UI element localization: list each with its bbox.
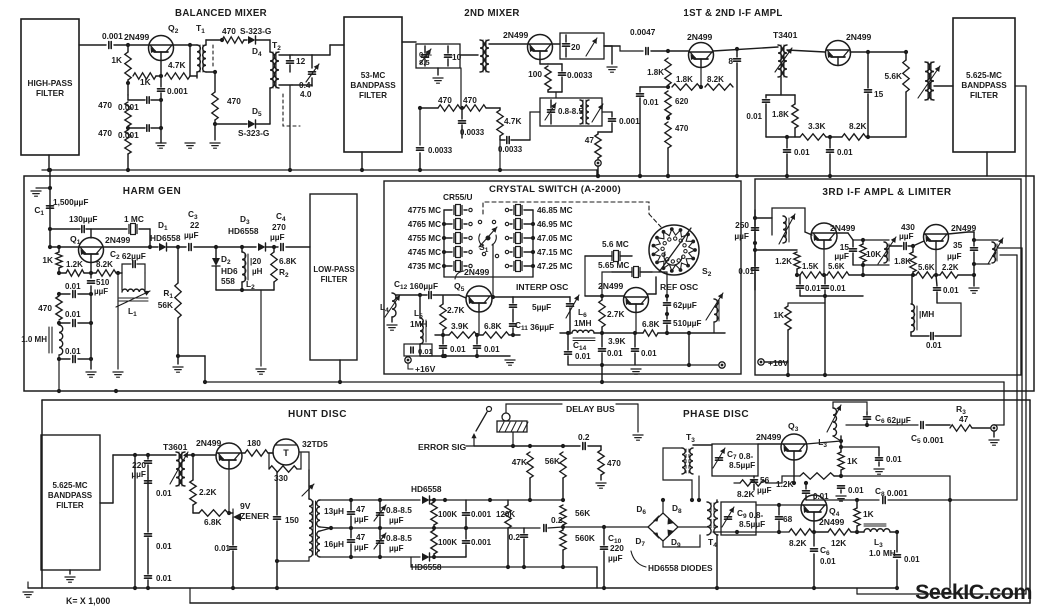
- svg-text:T: T: [283, 448, 289, 458]
- svg-text:1.2K: 1.2K: [66, 260, 83, 269]
- svg-text:1ST & 2ND I-F AMPL: 1ST & 2ND I-F AMPL: [683, 8, 782, 19]
- svg-text:180: 180: [247, 438, 261, 448]
- svg-text:µµF: µµF: [270, 232, 285, 242]
- svg-text:µµF: µµF: [389, 515, 404, 525]
- svg-text:10K: 10K: [866, 249, 881, 259]
- svg-text:1.8K: 1.8K: [894, 257, 911, 266]
- svg-text:ERROR SIG: ERROR SIG: [418, 442, 467, 452]
- svg-text:INTERP OSC: INTERP OSC: [516, 282, 568, 292]
- svg-text:8.2K: 8.2K: [737, 489, 755, 499]
- svg-text:0.8-8.5: 0.8-8.5: [386, 533, 412, 543]
- svg-text:1.8K: 1.8K: [647, 68, 664, 77]
- svg-text:6.8K: 6.8K: [279, 256, 297, 266]
- svg-text:2N499: 2N499: [196, 438, 222, 448]
- svg-text:BANDPASS: BANDPASS: [961, 81, 1007, 90]
- svg-text:µµF: µµF: [389, 543, 404, 553]
- svg-text:470: 470: [463, 95, 477, 105]
- svg-text:5.6 MC: 5.6 MC: [602, 239, 629, 249]
- svg-text:FILTER: FILTER: [970, 91, 998, 100]
- svg-text:47.25 MC: 47.25 MC: [537, 262, 573, 271]
- svg-text:100K: 100K: [438, 538, 457, 547]
- svg-text:4775 MC: 4775 MC: [408, 206, 441, 215]
- svg-text:0.01: 0.01: [820, 557, 836, 566]
- svg-text:HD6558: HD6558: [411, 484, 442, 494]
- svg-text:T3601: T3601: [163, 442, 188, 452]
- svg-text:56K: 56K: [575, 508, 590, 518]
- svg-text:2N499: 2N499: [464, 267, 490, 277]
- svg-text:0.01: 0.01: [214, 544, 230, 553]
- svg-text:8.5: 8.5: [419, 58, 430, 67]
- svg-text:ZENER: ZENER: [240, 511, 270, 521]
- svg-text:0.01: 0.01: [794, 148, 810, 157]
- svg-text:0.01: 0.01: [926, 341, 942, 350]
- svg-text:250: 250: [735, 220, 749, 230]
- svg-text:0.01: 0.01: [156, 542, 172, 551]
- svg-text:HIGH-PASS: HIGH-PASS: [28, 79, 73, 88]
- svg-text:µµF: µµF: [899, 231, 914, 241]
- svg-text:12K: 12K: [831, 538, 846, 548]
- svg-text:S-323-G: S-323-G: [240, 26, 271, 36]
- svg-text:0.01: 0.01: [848, 486, 864, 495]
- svg-text:20: 20: [571, 42, 581, 52]
- svg-text:HD6558 DIODES: HD6558 DIODES: [648, 563, 713, 573]
- svg-text:HUNT DISC: HUNT DISC: [288, 409, 347, 420]
- svg-text:9V: 9V: [240, 501, 251, 511]
- svg-text:0.01: 0.01: [156, 574, 172, 583]
- svg-text:S-323-G: S-323-G: [238, 128, 269, 138]
- svg-text:47.15 MC: 47.15 MC: [537, 248, 573, 257]
- svg-text:5.6K: 5.6K: [884, 71, 902, 81]
- svg-text:2N499: 2N499: [756, 432, 782, 442]
- svg-text:0.01: 0.01: [641, 349, 657, 358]
- svg-text:LOW-PASS: LOW-PASS: [313, 265, 354, 274]
- svg-text:HD6558: HD6558: [228, 226, 259, 236]
- svg-text:µµF: µµF: [757, 485, 772, 495]
- svg-text:1.5K: 1.5K: [802, 262, 819, 271]
- svg-text:470: 470: [38, 303, 52, 313]
- svg-text:0.01: 0.01: [65, 282, 81, 291]
- svg-text:100: 100: [528, 69, 542, 79]
- svg-text:4765 MC: 4765 MC: [408, 220, 441, 229]
- svg-text:µµF: µµF: [834, 251, 849, 261]
- svg-text:0.0033: 0.0033: [498, 145, 523, 154]
- svg-text:FILTER: FILTER: [359, 91, 387, 100]
- svg-text:12: 12: [296, 56, 306, 66]
- svg-text:2N499: 2N499: [598, 281, 624, 291]
- svg-text:330: 330: [274, 473, 288, 483]
- svg-text:µµF: µµF: [608, 553, 623, 563]
- svg-text:BANDPASS: BANDPASS: [350, 81, 396, 90]
- svg-text:4735 MC: 4735 MC: [408, 262, 441, 271]
- svg-text:0.2: 0.2: [508, 532, 520, 542]
- svg-text:CRYSTAL SWITCH (A-2000): CRYSTAL SWITCH (A-2000): [489, 184, 621, 195]
- svg-text:0.0047: 0.0047: [630, 27, 656, 37]
- svg-text:5.6K: 5.6K: [828, 262, 845, 271]
- svg-text:4.0: 4.0: [300, 89, 312, 99]
- svg-text:0.0033: 0.0033: [428, 146, 453, 155]
- svg-text:0.001: 0.001: [102, 31, 123, 41]
- svg-text:470: 470: [675, 124, 689, 133]
- svg-text:47K: 47K: [512, 457, 527, 467]
- svg-text:0.001: 0.001: [471, 510, 492, 519]
- svg-text:HARM GEN: HARM GEN: [123, 186, 181, 197]
- svg-text:130µµF: 130µµF: [69, 214, 97, 224]
- svg-text:1.2K: 1.2K: [775, 257, 792, 266]
- svg-text:470: 470: [222, 26, 236, 36]
- svg-text:220: 220: [610, 543, 624, 553]
- svg-text:1MH: 1MH: [574, 318, 592, 328]
- svg-text:0.0033: 0.0033: [460, 128, 485, 137]
- svg-text:1.0 MH: 1.0 MH: [21, 335, 47, 344]
- svg-text:1MH: 1MH: [410, 319, 428, 329]
- svg-text:µH: µH: [252, 267, 263, 276]
- svg-text:4755 MC: 4755 MC: [408, 234, 441, 243]
- svg-text:1.0 MH: 1.0 MH: [869, 548, 896, 558]
- svg-text:+16V: +16V: [415, 364, 436, 374]
- svg-text:0.01: 0.01: [805, 284, 821, 293]
- svg-text:13µH: 13µH: [324, 506, 344, 516]
- svg-text:4.7K: 4.7K: [504, 116, 522, 126]
- svg-text:1K: 1K: [847, 456, 858, 466]
- svg-text:0.0033: 0.0033: [567, 70, 593, 80]
- svg-text:510µµF: 510µµF: [673, 318, 701, 328]
- svg-text:1K: 1K: [42, 255, 53, 265]
- svg-text:1 MC: 1 MC: [124, 214, 144, 224]
- svg-text:0.8-8.5: 0.8-8.5: [386, 505, 412, 515]
- svg-text:470: 470: [98, 128, 112, 138]
- svg-text:DELAY BUS: DELAY BUS: [566, 404, 615, 414]
- svg-text:1.2K: 1.2K: [776, 479, 794, 489]
- svg-text:FILTER: FILTER: [36, 89, 64, 98]
- svg-text:HD6: HD6: [221, 266, 238, 276]
- svg-text:3.3K: 3.3K: [808, 121, 826, 131]
- svg-text:470: 470: [438, 95, 452, 105]
- svg-text:2ND MIXER: 2ND MIXER: [464, 8, 519, 19]
- svg-text:1K: 1K: [863, 509, 874, 519]
- svg-text:T3401: T3401: [773, 30, 798, 40]
- svg-text:2.2K: 2.2K: [942, 263, 959, 272]
- svg-text:47.05 MC: 47.05 MC: [537, 234, 573, 243]
- svg-text:4.7K: 4.7K: [168, 60, 186, 70]
- svg-text:REF OSC: REF OSC: [660, 282, 698, 292]
- svg-text:|20: |20: [250, 257, 262, 266]
- svg-text:2N499: 2N499: [846, 32, 872, 42]
- svg-text:5.625-MC: 5.625-MC: [52, 481, 87, 490]
- svg-text:2N499: 2N499: [124, 32, 150, 42]
- svg-text:µµF: µµF: [354, 542, 369, 552]
- svg-text:620: 620: [675, 97, 689, 106]
- svg-text:68: 68: [783, 514, 793, 524]
- svg-text:µµF: µµF: [354, 514, 369, 524]
- svg-text:HD6558: HD6558: [150, 233, 181, 243]
- svg-text:2.7K: 2.7K: [447, 305, 465, 315]
- svg-text:2.2K: 2.2K: [199, 487, 217, 497]
- svg-text:47: 47: [356, 504, 366, 514]
- svg-text:BANDPASS: BANDPASS: [48, 491, 93, 500]
- svg-text:560K: 560K: [575, 533, 595, 543]
- svg-text:0.01: 0.01: [886, 455, 902, 464]
- svg-text:8.2K: 8.2K: [789, 538, 807, 548]
- svg-text:470: 470: [607, 458, 621, 468]
- svg-text:0.01: 0.01: [156, 489, 172, 498]
- svg-text:510: 510: [96, 278, 110, 287]
- svg-text:470: 470: [98, 100, 112, 110]
- svg-text:K= X 1,000: K= X 1,000: [66, 596, 110, 606]
- svg-text:8.2K: 8.2K: [96, 260, 113, 269]
- svg-text:3RD I-F AMPL & LIMITER: 3RD I-F AMPL & LIMITER: [822, 187, 952, 198]
- svg-text:0.01: 0.01: [746, 112, 762, 121]
- svg-text:0.01: 0.01: [484, 345, 500, 354]
- svg-text:47: 47: [959, 414, 969, 424]
- svg-text:8.5µµF: 8.5µµF: [739, 519, 765, 529]
- svg-text:µµF: µµF: [184, 230, 199, 240]
- svg-text:0.8-8.5: 0.8-8.5: [558, 107, 583, 116]
- svg-text:2.7K: 2.7K: [607, 309, 625, 319]
- svg-text:16µH: 16µH: [324, 539, 344, 549]
- svg-text:µµF: µµF: [734, 231, 749, 241]
- svg-text:470: 470: [227, 96, 241, 106]
- svg-text:8: 8: [728, 56, 733, 66]
- svg-text:8.5µµF: 8.5µµF: [729, 460, 755, 470]
- svg-text:C11 36µµF: C11 36µµF: [515, 320, 554, 332]
- svg-text:120K: 120K: [496, 510, 515, 519]
- svg-text:1.8K: 1.8K: [676, 75, 693, 84]
- svg-text:6.8K: 6.8K: [204, 517, 222, 527]
- svg-text:8.2K: 8.2K: [707, 75, 724, 84]
- svg-text:0.01: 0.01: [643, 98, 659, 107]
- svg-text:2N499: 2N499: [503, 30, 529, 40]
- svg-text:µµF: µµF: [131, 469, 146, 479]
- svg-text:2N499: 2N499: [687, 32, 713, 42]
- svg-text:22: 22: [190, 220, 200, 230]
- svg-text:1K: 1K: [111, 55, 122, 65]
- svg-text:FILTER: FILTER: [321, 275, 348, 284]
- svg-text:0.01: 0.01: [904, 555, 920, 564]
- svg-text:0.01: 0.01: [575, 352, 591, 361]
- svg-text:C6 62µµF: C6 62µµF: [875, 413, 911, 425]
- svg-text:0.001: 0.001: [471, 538, 492, 547]
- svg-text:BALANCED MIXER: BALANCED MIXER: [175, 8, 267, 19]
- svg-text:0.01: 0.01: [65, 310, 81, 319]
- svg-text:|MH: |MH: [919, 309, 934, 319]
- svg-text:0.01: 0.01: [450, 345, 466, 354]
- svg-text:270: 270: [272, 222, 286, 232]
- svg-text:56K: 56K: [158, 300, 173, 310]
- svg-text:100K: 100K: [438, 510, 457, 519]
- svg-text:0.01: 0.01: [837, 148, 853, 157]
- svg-text:62µµF: 62µµF: [673, 300, 697, 310]
- svg-text:0.01: 0.01: [607, 349, 623, 358]
- svg-text:µµF: µµF: [947, 251, 962, 261]
- svg-text:53-MC: 53-MC: [361, 71, 386, 80]
- svg-text:5.625-MC: 5.625-MC: [966, 71, 1002, 80]
- svg-text:1.8K: 1.8K: [772, 110, 789, 119]
- svg-text:32TD5: 32TD5: [302, 439, 328, 449]
- svg-text:5µµF: 5µµF: [532, 302, 551, 312]
- svg-text:46.95 MC: 46.95 MC: [537, 220, 573, 229]
- svg-text:+16V: +16V: [768, 358, 789, 368]
- svg-text:6.8K: 6.8K: [642, 319, 660, 329]
- svg-text:8.2K: 8.2K: [849, 121, 867, 131]
- svg-text:47: 47: [356, 532, 366, 542]
- svg-text:SeekIC.com: SeekIC.com: [915, 580, 1032, 604]
- svg-text:1,500µµF: 1,500µµF: [53, 197, 88, 207]
- svg-text:3.9K: 3.9K: [451, 321, 469, 331]
- svg-text:1K: 1K: [773, 310, 784, 320]
- svg-text:CR55/U: CR55/U: [443, 192, 473, 202]
- svg-text:C2 62µµF: C2 62µµF: [110, 249, 146, 261]
- svg-text:PHASE DISC: PHASE DISC: [683, 409, 749, 420]
- svg-text:0.01: 0.01: [830, 284, 846, 293]
- svg-text:10: 10: [452, 52, 462, 62]
- svg-text:46.85 MC: 46.85 MC: [537, 206, 573, 215]
- svg-text:FILTER: FILTER: [56, 501, 84, 510]
- svg-text:150: 150: [285, 515, 299, 525]
- svg-text:558: 558: [221, 276, 235, 286]
- svg-text:0.01: 0.01: [943, 286, 959, 295]
- svg-text:4745 MC: 4745 MC: [408, 248, 441, 257]
- svg-text:0.2: 0.2: [578, 432, 590, 442]
- svg-text:0.01: 0.01: [418, 347, 434, 356]
- svg-text:56K: 56K: [545, 456, 560, 466]
- svg-text:0.01: 0.01: [65, 347, 81, 356]
- svg-text:5.6K: 5.6K: [918, 263, 935, 272]
- svg-text:35: 35: [953, 240, 963, 250]
- svg-text:0.001: 0.001: [167, 86, 188, 96]
- svg-text:47: 47: [585, 135, 595, 145]
- svg-text:3.9K: 3.9K: [608, 336, 626, 346]
- svg-text:1K: 1K: [140, 77, 151, 87]
- svg-text:µµF: µµF: [94, 287, 108, 296]
- svg-text:5.65 MC: 5.65 MC: [598, 260, 629, 270]
- svg-text:0.001: 0.001: [619, 116, 640, 126]
- svg-text:2N499: 2N499: [105, 235, 131, 245]
- svg-text:6.8K: 6.8K: [484, 321, 502, 331]
- svg-text:15: 15: [874, 89, 884, 99]
